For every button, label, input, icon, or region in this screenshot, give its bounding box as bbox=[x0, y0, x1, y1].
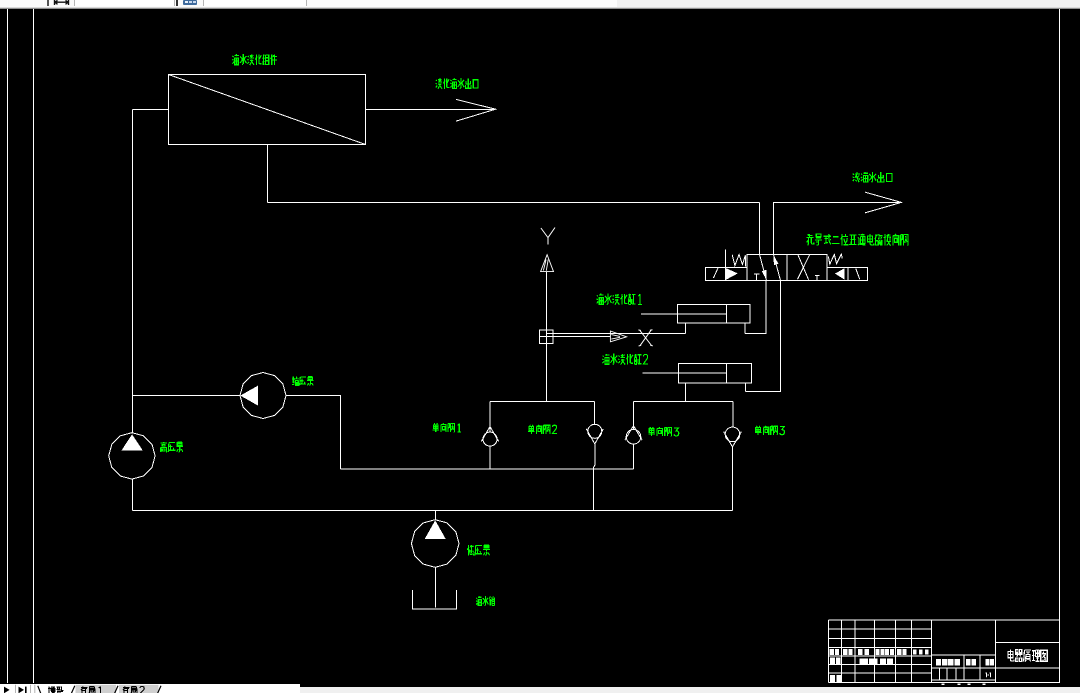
title block middle header texts (阶段标记 重量 比例) bbox=[936, 659, 994, 665]
desalination module 海水淡化组件 (rect with diagonal) bbox=[169, 75, 366, 145]
nav button separators bbox=[16, 685, 35, 693]
tab slash bbox=[158, 686, 162, 693]
wire right manifold top header bbox=[634, 401, 734, 403]
UCS icon X-axis arrowhead bbox=[610, 331, 626, 342]
tab edge backslash bbox=[38, 686, 41, 693]
title block row texts (标记 处数 分区 更改文件号 签名 年月日) bbox=[830, 649, 929, 655]
label 浓海水出口 bbox=[853, 172, 892, 182]
cylinder 2 left port wire bbox=[685, 383, 687, 402]
drawing sheet frame right line bbox=[1059, 9, 1061, 683]
pump 增压泵 circle bbox=[240, 373, 286, 419]
pump 高压泵 circle bbox=[109, 433, 155, 479]
solenoid valve V1 pos1 blocked port T bbox=[754, 274, 759, 281]
wire booster pump inlet from riser bbox=[133, 395, 241, 397]
solenoid valve V1 left solenoid slash bbox=[714, 268, 719, 278]
cylinder 1 left port wire bbox=[685, 323, 687, 334]
label 海水淡化缸2 bbox=[602, 354, 648, 365]
wire left manifold right branch down bbox=[594, 402, 596, 425]
solenoid valve V1 pos1 flow line A (down) bbox=[760, 255, 767, 281]
solenoid valve V1 pos1 flow line B (up) bbox=[774, 255, 781, 281]
toolbar field box 2 bbox=[203, 0, 307, 6]
wire right manifold left branch down bbox=[633, 402, 635, 430]
wire booster pump outlet to suction header bbox=[286, 396, 341, 470]
solenoid valve V1 left spring bbox=[732, 254, 745, 266]
cylinder 2 piston bbox=[726, 364, 728, 384]
label 高压泵 bbox=[161, 442, 184, 452]
cylinder 1 right port wire bbox=[744, 323, 746, 334]
tank 海水箱 (open top) bbox=[413, 590, 457, 609]
UCS icon Y-axis stem / feed wire down bbox=[546, 272, 548, 402]
label 海水淡化缸1 bbox=[597, 294, 642, 305]
bottom layout-tab strip (clipped) bbox=[0, 684, 300, 693]
UCS icon X-axis line bbox=[553, 336, 610, 338]
wire low pressure pump suction into tank bbox=[435, 567, 437, 607]
label 单向阀1 bbox=[433, 423, 461, 432]
wire check valve2 down with jog to pump header bbox=[593, 444, 595, 511]
solenoid valve V1 pos2 blocked port T bbox=[815, 275, 820, 280]
tab 模型 text bbox=[48, 686, 64, 693]
solenoid valve V1 right spring bbox=[828, 254, 842, 264]
label 淡化海水出口 bbox=[436, 78, 478, 89]
toolbar layer icon (blue, clipped) bbox=[183, 0, 197, 5]
solenoid valve V1 right pilot box bbox=[827, 268, 868, 281]
solenoid valve V1 pos1 arrowhead A bbox=[762, 270, 767, 280]
wire desal bottom drop to brine/valve line bbox=[267, 145, 269, 203]
check valve 单向阀2 (seat below ball) bbox=[586, 424, 603, 444]
check valve 单向阀4 (seat below ball) bbox=[724, 427, 742, 447]
cylinder 1 piston bbox=[726, 305, 728, 324]
toolbar bevel bottom edge bbox=[0, 7, 1080, 8]
title block bottom clipped dashes bbox=[942, 683, 986, 684]
label 单向阀3 bbox=[648, 427, 678, 436]
UCS icon origin box inner horizontal bbox=[540, 336, 554, 338]
bottom scrollbar strip (clipped) bbox=[300, 687, 1080, 693]
wire low pressure pump stub bbox=[435, 511, 437, 520]
wire high pressure pump outlet down bbox=[132, 479, 134, 510]
solenoid valve V1 left solenoid triangle bbox=[726, 268, 738, 280]
label 低压泵 bbox=[467, 545, 490, 556]
toolbar separator 1 bbox=[47, 0, 49, 6]
toolbar field box 1 bbox=[74, 0, 175, 6]
label 先导式二位五通电磁换向阀 bbox=[806, 234, 908, 246]
solenoid valve V1 right solenoid triangle bbox=[835, 268, 845, 279]
UCS icon X glyph bbox=[638, 330, 652, 346]
wire check valve1 to suction header bbox=[489, 446, 491, 469]
label 单向阀2 bbox=[528, 425, 557, 434]
UCS icon Y glyph bbox=[541, 228, 555, 245]
wire valve T port down to cylinder2 right bbox=[746, 281, 781, 392]
wire desalinated water outlet bbox=[366, 109, 496, 111]
wire valve B port down to cylinder1 right bbox=[745, 281, 766, 334]
solenoid valve V1 position divider bbox=[786, 255, 788, 281]
solenoid valve V1 right pilot divider bbox=[847, 268, 849, 281]
wire main feed riser bbox=[132, 110, 134, 433]
cylinder 2 right port wire bbox=[745, 383, 747, 392]
check valve 单向阀3 (seat above ball) bbox=[625, 426, 642, 444]
tab 布局1 text bbox=[81, 686, 102, 693]
solenoid valve V1 right solenoid slash bbox=[856, 268, 860, 279]
cylinder 海水淡化缸1 body bbox=[678, 305, 751, 324]
solenoid valve V1 pos2 crossed line 1 bbox=[798, 255, 809, 280]
layout tab nav arrow 1 bbox=[4, 687, 10, 693]
wire desal module inlet (left) bbox=[133, 109, 169, 111]
label 海水箱 bbox=[476, 596, 495, 606]
wire low pressure discharge header bbox=[133, 510, 733, 512]
label 单向阀4 bbox=[755, 426, 785, 435]
UCS icon origin box bbox=[540, 330, 554, 344]
toolbar white area bbox=[0, 0, 617, 7]
solenoid valve V1 pos1 arrowhead B bbox=[773, 255, 778, 265]
UCS icon Y-axis arrowhead bbox=[541, 255, 554, 272]
inactive tab gray background 布局1 bbox=[76, 685, 117, 693]
tab slash bbox=[71, 686, 75, 693]
inactive tab gray background 布局2 bbox=[119, 685, 159, 693]
pump 低压泵 circle bbox=[411, 520, 459, 568]
wire cylinder1 left port line bbox=[547, 333, 686, 335]
wire left manifold left branch down bbox=[489, 402, 491, 433]
title block scale text 1:1 bbox=[986, 673, 991, 678]
title block row4 text (审核) bbox=[830, 675, 842, 682]
toolbar strip (clipped top of CAD window) bbox=[0, 0, 1080, 9]
wire check valve3 to suction header bbox=[633, 444, 635, 469]
pump 高压泵 triangle (points up) bbox=[121, 434, 142, 450]
drawing sheet frame inner-left line bbox=[33, 9, 35, 683]
layout tab nav arrow 2 bbox=[19, 687, 25, 693]
wire check valve4 down to low pressure header bbox=[732, 447, 734, 511]
title block row2 texts (设计 / 单位名 / 标准化) bbox=[830, 658, 893, 665]
arrow 淡化海水出口 arrowhead bbox=[456, 99, 496, 121]
toolbar icon (dimension tool, clipped) bbox=[53, 0, 71, 6]
solenoid valve V1 left pilot divider bbox=[725, 268, 727, 281]
pump 增压泵 triangle (points left) bbox=[240, 386, 257, 406]
title text 电器原理图 bbox=[1008, 649, 1047, 661]
pump 低压泵 triangle (points up) bbox=[425, 520, 446, 539]
tab slash bbox=[115, 686, 119, 693]
wire right manifold right branch down bbox=[732, 402, 734, 428]
cylinder 2 rod bbox=[643, 372, 727, 374]
tab 布局2 text bbox=[123, 686, 145, 693]
toolbar separator 2 bbox=[176, 0, 178, 6]
check valve 单向阀1 (seat above ball) bbox=[481, 427, 498, 447]
drawing sheet frame outer-left line bbox=[7, 9, 9, 683]
cylinder 海水淡化缸2 body bbox=[679, 364, 752, 384]
label 海水淡化组件 bbox=[232, 54, 277, 65]
title block outer and grid bbox=[829, 620, 1060, 683]
wire brine line to valve P port bbox=[268, 202, 760, 204]
arrow 浓海水出口 arrowhead bbox=[865, 192, 902, 213]
wire valve P port riser bbox=[759, 203, 761, 255]
solenoid valve V1 main body box bbox=[747, 255, 827, 281]
solenoid valve V1 left pilot box bbox=[706, 268, 748, 281]
solenoid valve V1 pos2 crossed line 2 bbox=[798, 255, 810, 279]
wire left manifold top header bbox=[490, 401, 595, 403]
cylinder 1 rod bbox=[641, 313, 727, 315]
wire valve A port riser to brine outlet bbox=[774, 203, 902, 255]
solenoid valve V1 left pilot stub wire bbox=[725, 249, 727, 267]
label 增压泵 bbox=[292, 377, 313, 386]
wire booster suction header bbox=[341, 468, 634, 470]
